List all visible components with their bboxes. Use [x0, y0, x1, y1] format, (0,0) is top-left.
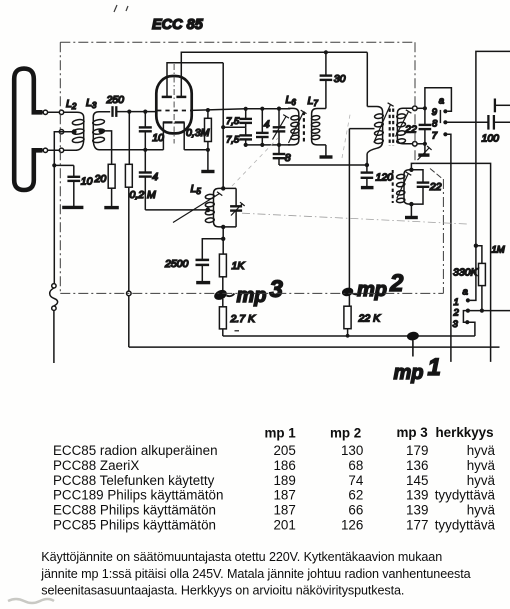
resistor 22K [344, 306, 351, 336]
capacitor 4 tank [256, 109, 269, 145]
antenna terminal circles [43, 110, 64, 152]
svg-text:1M: 1M [492, 245, 505, 256]
arrow L5 adjustable [173, 192, 222, 223]
svg-text:mp 1: mp 1 [265, 426, 297, 441]
resistor 1K [219, 254, 226, 291]
resistor 0,3M [205, 110, 212, 150]
label 8 [285, 152, 291, 164]
node 22 top [423, 106, 427, 110]
node divider tap [221, 125, 225, 129]
wire anode1 column down to L5 [222, 63, 224, 189]
label 7,5 upper [226, 116, 240, 127]
svg-text:0,2 M: 0,2 M [130, 189, 157, 201]
ground T2 [405, 216, 418, 219]
tube ECC85 envelope U1 [156, 76, 191, 133]
svg-text:187: 187 [273, 503, 295, 518]
label 1K [232, 260, 246, 272]
svg-text:330K: 330K [453, 267, 479, 279]
arrow mp1 [412, 341, 414, 357]
svg-text:126: 126 [341, 518, 363, 533]
capacitor 100 [488, 115, 494, 130]
shield box dash-dot diagonal [430, 169, 442, 179]
ground cathode 2 [201, 170, 214, 173]
node L2 tap [72, 129, 77, 134]
node contact 8 [443, 120, 447, 124]
wire anode 2 lead to top rail [181, 52, 367, 97]
tube anode plates [162, 96, 187, 99]
node 22K bottom [346, 334, 350, 338]
label pin a lower [463, 287, 468, 298]
wire capacitor 4 to L5 tap [145, 209, 208, 211]
inductor L3 [92, 112, 110, 150]
node grid right 0,3M [206, 108, 210, 112]
wire T1 tap down to mp2 [348, 129, 350, 307]
node T1 bottom 120 [365, 163, 369, 167]
svg-text:L6: L6 [286, 94, 297, 107]
wire antenna lower lead [43, 149, 78, 151]
svg-text:L5: L5 [191, 183, 202, 196]
shield box dash-dot bottom [60, 292, 443, 294]
wire rail 2 [129, 346, 500, 348]
svg-text:68: 68 [348, 458, 363, 473]
node grid trimmer [277, 107, 281, 111]
label 10 antenna [81, 176, 93, 188]
trimmer capacitor 22 first [419, 108, 432, 144]
wire antenna upper lead [43, 111, 78, 113]
svg-text:187: 187 [273, 488, 295, 503]
node 0,2M boundary circle [127, 291, 132, 296]
svg-text:1: 1 [454, 297, 459, 308]
label pin a upper [439, 95, 444, 106]
wire rail 1 [223, 335, 475, 337]
capacitor 120 [361, 165, 374, 186]
capacitor 30 [320, 52, 333, 108]
gang alignment dash-dot line [242, 213, 467, 224]
svg-text:ECC88 Philips käyttämätön: ECC88 Philips käyttämätön [53, 503, 216, 518]
node grid wire B [143, 110, 147, 114]
node L5 top feed [221, 186, 225, 190]
arrow T1 primary adjustable [374, 103, 394, 143]
caption paragraph line 3 [41, 584, 404, 598]
wire anode 1 lead [167, 63, 223, 97]
inductor L2 [72, 112, 84, 150]
svg-text:145: 145 [406, 473, 428, 488]
table row ECC88 [53, 503, 496, 518]
inductor L5 tank [205, 188, 236, 227]
svg-text:139: 139 [406, 488, 428, 503]
caption paragraph line 1 [41, 550, 442, 564]
node contact 9 [443, 109, 447, 113]
arrow T1 secondary adjustable [396, 110, 412, 137]
label mp2 [357, 270, 404, 301]
label 100 [482, 133, 500, 145]
svg-text:7: 7 [432, 131, 438, 142]
gang diagonal dashed link 2 [342, 112, 351, 158]
node mp1 blob [406, 331, 419, 341]
transformer T2 top node wire [411, 163, 490, 362]
tube cathode plates [163, 121, 185, 123]
label mp3 [237, 276, 284, 307]
wire T1 primary tap [349, 128, 374, 130]
trimmer capacitor L5 tank [230, 188, 242, 227]
wire top rail down to transformer T1 [366, 52, 368, 106]
svg-text:8: 8 [432, 118, 438, 129]
T1 secondary terminal circles [413, 106, 418, 146]
label 10 grid [152, 132, 164, 144]
wire capacitor 100 right [494, 121, 510, 123]
transformer T2 coil [396, 170, 411, 204]
resistor 2,7K [219, 299, 226, 336]
svg-text:L3: L3 [86, 97, 97, 110]
svg-text:201: 201 [273, 518, 295, 533]
svg-text:hyvä: hyvä [467, 473, 496, 488]
wire grid line left [116, 111, 157, 113]
wire L7 to ground [325, 145, 327, 156]
svg-text:hyvä: hyvä [467, 443, 496, 458]
label 120 [376, 172, 394, 184]
wire connector down end [53, 310, 55, 363]
node mp2 blob [341, 286, 361, 297]
wire L5 bottom down [222, 227, 224, 254]
speck marks top left [114, 5, 128, 12]
svg-text:9: 9 [432, 107, 438, 118]
wire 22 bottom to ground [424, 144, 426, 154]
transformer T1 secondary coil [396, 108, 412, 144]
wire 0,2M down to bottom rail [128, 296, 130, 347]
node divider top [244, 107, 248, 111]
svg-text:3: 3 [453, 319, 459, 330]
node grid wire A [127, 110, 131, 114]
switch bar contacts 9 8 [439, 110, 441, 123]
ground for resistor 20 [104, 206, 119, 209]
wire hook 22 to contact 9 [425, 88, 452, 112]
svg-text:hyvä: hyvä [467, 503, 496, 518]
wire grid line right [191, 109, 290, 111]
svg-text:2: 2 [453, 308, 460, 319]
node B+ 330K [474, 244, 478, 248]
svg-text:189: 189 [273, 473, 295, 488]
svg-text:L2: L2 [66, 98, 77, 111]
label 22 second [429, 181, 442, 193]
svg-text:177: 177 [406, 518, 428, 533]
capacitor 8 [273, 145, 286, 165]
svg-text:mp2: mp2 [357, 270, 404, 301]
node 22 bottom [423, 142, 427, 146]
svg-text:seleenitasasuuntaajasta. Herkk: seleenitasasuuntaajasta. Herkkyys on arv… [41, 584, 404, 598]
terminal stub top right [495, 99, 510, 113]
wire cathode right segment [184, 149, 208, 151]
wire secondary top to 22 [417, 107, 425, 109]
capacitor 10 antenna [67, 165, 80, 206]
trimmer capacitor tank [273, 109, 286, 145]
shield box dash-dot right lower [442, 179, 444, 293]
label 20 [94, 173, 107, 185]
label L3 [86, 97, 97, 110]
label 4 cathode [152, 171, 158, 183]
wire secondary bottom to 22 [417, 143, 425, 145]
node contact 2 [466, 309, 470, 313]
label L2 [66, 98, 77, 111]
capacitor 10 grid [139, 112, 152, 150]
wire L2 tap to left column [54, 132, 74, 166]
label 250 [106, 94, 125, 106]
svg-text:jännite mp 1:ssä pitäisi olla: jännite mp 1:ssä pitäisi olla 245V. Mata… [40, 567, 470, 581]
tube grid dashes [157, 110, 191, 112]
svg-text:7,5: 7,5 [226, 116, 240, 127]
node junction left column [52, 163, 56, 167]
node L5 bottom [221, 225, 225, 229]
svg-text:mp3: mp3 [237, 276, 284, 307]
wire cathode left [99, 149, 163, 151]
svg-text:30: 30 [334, 73, 346, 85]
svg-text:136: 136 [406, 458, 428, 473]
arrow L5 trimmer [231, 202, 245, 215]
label 2,7K [230, 313, 257, 325]
table row ECC85 [53, 443, 496, 458]
capacitor 22 second [411, 170, 429, 204]
label L5 [191, 183, 202, 196]
wire cathode 1 lead [162, 122, 164, 149]
svg-text:mp 3: mp 3 [397, 425, 428, 440]
wire contact 2 output [468, 310, 510, 312]
arrow T2 adjustable [397, 172, 412, 199]
capacitor 4 cathode [139, 150, 152, 210]
label pin 1 [454, 297, 459, 308]
transformer T1 primary coil [367, 107, 383, 154]
node tank rail B [260, 143, 264, 147]
svg-text:186: 186 [273, 458, 295, 473]
table row PCC88 Telefunken [53, 473, 496, 488]
svg-text:mp1: mp1 [394, 354, 441, 384]
node T2 bottom [409, 202, 413, 206]
svg-text:0,3M: 0,3M [186, 127, 210, 139]
svg-text:4: 4 [152, 171, 158, 183]
node L3 tap [98, 129, 103, 134]
svg-text:130: 130 [341, 443, 363, 458]
node contact 3 [465, 320, 469, 324]
wire 0,3M to ground [207, 150, 209, 171]
label ECC85 [152, 17, 204, 33]
label 22K [358, 313, 382, 325]
node contact 7 [443, 132, 447, 136]
label pin 3 [453, 319, 459, 330]
svg-text:L7: L7 [308, 95, 319, 108]
wire T1 primary bottom [366, 154, 368, 166]
node tank rail C [277, 143, 281, 147]
wire junction to capacitor 10 [54, 164, 74, 166]
node L5 tap [205, 208, 210, 213]
label 4 tank [264, 119, 270, 131]
node T2 top [409, 168, 413, 172]
connector squiggle with circles [50, 284, 58, 311]
node 330K bottom [480, 309, 484, 313]
inductor L6 [288, 108, 299, 144]
antenna folded dipole [14, 69, 42, 190]
svg-text:205: 205 [273, 443, 295, 458]
ground L7 [320, 155, 333, 158]
ground 2500 [196, 281, 210, 284]
svg-text:4: 4 [264, 119, 270, 131]
node mp3 blob [213, 288, 235, 302]
svg-text:2.7 K: 2.7 K [230, 313, 257, 325]
label 1M [492, 245, 505, 256]
label pin 2 [453, 308, 460, 319]
arrow 22 trimmer [418, 146, 432, 160]
ground capacitor 120 [361, 186, 374, 189]
svg-text:22: 22 [429, 181, 442, 193]
svg-text:10: 10 [152, 132, 164, 144]
inductor L7 [311, 109, 326, 145]
scan smudge bottom left [8, 599, 54, 603]
svg-text:7,5: 7,5 [226, 134, 240, 145]
capacitor 7,5 upper [239, 109, 252, 127]
capacitor 250 [113, 106, 117, 117]
wire L3 tap to resistor 20 [101, 131, 112, 164]
node grid 4cap [260, 107, 264, 111]
node 2500 branch [221, 237, 225, 241]
wire capacitor 8 to transformer node [279, 164, 367, 166]
wire B+ top right [476, 51, 510, 245]
resistor 20 [108, 164, 115, 206]
resistor 330K [476, 246, 486, 311]
label 0,2M [130, 189, 157, 201]
table row PCC85 [53, 518, 496, 533]
resistor 0,2M [125, 112, 132, 292]
wire contact 3 hook to rail 1 [467, 322, 475, 336]
svg-text:139: 139 [406, 503, 428, 518]
svg-text:62: 62 [348, 488, 363, 503]
svg-text:herkkyys: herkkyys [436, 425, 494, 440]
svg-text:PCC88 Telefunken käytetty: PCC88 Telefunken käytetty [53, 473, 215, 488]
label pin 8 [432, 118, 438, 129]
svg-text:a: a [439, 95, 444, 106]
shield box dash-dot top [60, 41, 415, 43]
table row PCC189 [53, 488, 496, 503]
svg-text:Käyttöjännite on säätömuuntaja: Käyttöjännite on säätömuuntajasta otettu… [41, 550, 442, 564]
svg-text:tyydyttävä: tyydyttävä [435, 518, 496, 533]
svg-text:PCC88 ZaeriX: PCC88 ZaeriX [53, 458, 139, 473]
svg-text:10: 10 [81, 176, 93, 188]
gang diagonal dashed link [232, 138, 278, 186]
node contact 1 [466, 298, 470, 302]
node 0,3M bottom [206, 148, 210, 152]
wire divider tap [223, 126, 246, 128]
core L6 L7 dashed [303, 112, 305, 143]
wire contact 7 down [445, 134, 451, 362]
svg-text:a: a [463, 287, 468, 298]
label L6 [286, 94, 297, 107]
label 330K [453, 267, 479, 279]
label 7,5 lower [226, 134, 240, 145]
svg-text:179: 179 [406, 443, 428, 458]
svg-text:mp 2: mp 2 [330, 426, 361, 441]
core T2 dashed [392, 170, 394, 203]
wire cathode 2 lead [183, 122, 185, 149]
svg-text:74: 74 [348, 473, 363, 488]
label pin 7 [432, 131, 438, 142]
core T1 dashed [390, 109, 394, 147]
table row PCC88 ZaeriX [53, 458, 496, 473]
wire T2 bottom to ground [410, 204, 412, 216]
wire B+ down to contact 1 [470, 246, 476, 301]
label 30 [334, 73, 346, 85]
node top rail 30 [324, 50, 328, 54]
tick mark under 2,7K [235, 330, 240, 332]
ground 22 [418, 153, 429, 156]
label pin 9 [432, 107, 438, 118]
svg-text:22 K: 22 K [358, 313, 382, 325]
trimmer arrow tank [273, 115, 290, 140]
caption paragraph line 2 [40, 567, 470, 581]
node cathode left junction [143, 148, 147, 152]
arrow L6 adjustable [289, 110, 307, 143]
table header row [265, 425, 494, 441]
label L7 [308, 95, 319, 108]
svg-text:8: 8 [285, 152, 291, 164]
svg-text:1K: 1K [232, 260, 246, 272]
svg-text:PCC189 Philips käyttämätön: PCC189 Philips käyttämätön [53, 488, 223, 503]
label mp1 [394, 354, 441, 384]
ground for capacitor 10 [62, 206, 83, 209]
svg-text:20: 20 [94, 173, 107, 185]
svg-text:tyydyttävä: tyydyttävä [435, 488, 496, 503]
label 2500 [164, 258, 189, 270]
wire contact 8 to capacitor 100 [445, 121, 487, 123]
switch bracket contacts 2 3 [463, 311, 468, 323]
svg-text:120: 120 [376, 172, 394, 184]
svg-text:ECC 85: ECC 85 [152, 17, 204, 33]
tube axis dash-dot [173, 64, 175, 144]
svg-text:66: 66 [348, 503, 363, 518]
svg-text:250: 250 [106, 94, 125, 106]
svg-text:PCC85 Philips käyttämätön: PCC85 Philips käyttämätön [53, 518, 216, 533]
shield box dash-dot left [59, 42, 61, 293]
svg-text:2500: 2500 [164, 258, 189, 270]
label 0,3M [186, 127, 210, 139]
svg-text:hyvä: hyvä [467, 458, 496, 473]
wire tank bottom rail [246, 144, 291, 146]
shield box dash-dot right upper [414, 42, 416, 164]
svg-text:ECC85 radion alkuperäinen: ECC85 radion alkuperäinen [53, 443, 218, 458]
node tank rail A [244, 143, 248, 147]
label 22 first [404, 124, 417, 136]
capacitor 2500 [196, 239, 224, 281]
svg-text:100: 100 [482, 133, 500, 145]
capacitor 7,5 lower [239, 127, 252, 145]
wire left column down to connector [53, 165, 55, 283]
